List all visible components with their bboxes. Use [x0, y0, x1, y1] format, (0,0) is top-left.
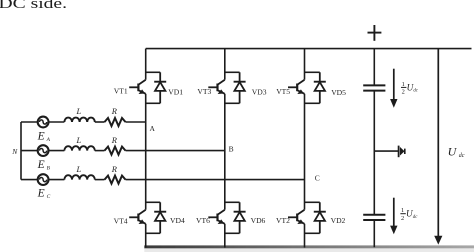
- wire: phase b from N to source: [21, 150, 38, 152]
- svg-text:E: E: [37, 159, 45, 171]
- resistor R phase c: [105, 176, 126, 184]
- wire: leg 3 top (bus to VT5 collector): [304, 49, 306, 80]
- svg-text:VD2: VD2: [331, 216, 346, 225]
- diode VD2: [314, 202, 326, 233]
- wire: VD4 bottom jog: [146, 232, 161, 234]
- svg-text:R: R: [111, 164, 118, 174]
- svg-text:VT2: VT2: [276, 216, 290, 225]
- arrow: half Udc voltage (upper): [390, 69, 397, 108]
- transistor VT2: [288, 210, 305, 224]
- svg-text:U: U: [448, 145, 458, 159]
- wire: phase c from N to source: [21, 179, 38, 181]
- transistor VT5: [288, 80, 305, 94]
- svg-text:1: 1: [401, 207, 404, 214]
- svg-text:dc: dc: [459, 153, 465, 159]
- AC source Ec: [38, 174, 49, 185]
- resistor R phase b: [105, 147, 126, 155]
- wire: VD5 top jog: [305, 71, 320, 73]
- svg-text:E: E: [37, 130, 45, 142]
- transistor VT3: [208, 80, 225, 94]
- svg-text:A: A: [150, 124, 156, 133]
- wire: VD2 bottom jog: [305, 232, 320, 234]
- capacitor C1 (upper): [363, 85, 385, 90]
- wire: leg 2 top (bus to VT3 collector): [224, 49, 226, 80]
- svg-text:R: R: [111, 135, 118, 145]
- svg-text:VT3: VT3: [197, 87, 211, 96]
- capacitor C2 (lower): [363, 215, 385, 220]
- wire: VD2 top jog: [305, 201, 320, 203]
- wire: negative DC bus (cropped, greyed): [144, 245, 474, 248]
- wire: leg 3 bottom: [304, 224, 306, 248]
- transistor VT4: [129, 210, 146, 224]
- svg-text:VD3: VD3: [252, 88, 267, 97]
- svg-text:2: 2: [401, 215, 404, 222]
- svg-text:L: L: [76, 135, 82, 145]
- wire: VD6 top jog: [225, 201, 240, 203]
- diode VD1: [154, 72, 166, 103]
- svg-text:VD5: VD5: [331, 88, 346, 97]
- arrow: Udc output voltage: [434, 49, 442, 245]
- svg-text:C: C: [47, 194, 51, 200]
- label 1/2 Udc: [400, 207, 418, 222]
- wire: source to inductor: [48, 121, 64, 123]
- wire: source to inductor: [48, 179, 64, 181]
- wire: leg 2 middle: [224, 94, 226, 210]
- wire: VD1 top jog: [146, 71, 161, 73]
- wire: neutral vertical: [20, 122, 22, 180]
- svg-text:1: 1: [402, 81, 405, 88]
- transistor VT1: [129, 80, 146, 94]
- wire: VD3 bottom jog: [225, 102, 240, 104]
- plus symbol on DC bus: [368, 25, 382, 41]
- wire: phase a to node A: [126, 121, 146, 123]
- wire: leg 3 middle: [304, 94, 306, 210]
- svg-text:L: L: [76, 106, 82, 116]
- wire: inductor to resistor: [95, 121, 105, 123]
- wire: capacitor midpoint tap: [374, 150, 398, 152]
- inductor L phase a: [64, 118, 94, 122]
- wire: inductor to resistor: [95, 150, 105, 152]
- svg-text:VD6: VD6: [251, 216, 266, 225]
- wire: C2 to negative bus: [373, 220, 375, 247]
- svg-text:VD1: VD1: [168, 88, 183, 97]
- wire: phase c to node C: [126, 179, 305, 181]
- wire: VD3 top jog: [225, 71, 240, 73]
- diode VD4: [154, 202, 166, 233]
- diode VD6: [234, 202, 246, 233]
- wire: bus to capacitor C1: [373, 49, 375, 85]
- inductor L phase c: [64, 175, 94, 179]
- svg-text:VT1: VT1: [114, 87, 128, 96]
- wire: VD5 bottom jog: [305, 102, 320, 104]
- wire: C1 to midpoint to C2: [373, 91, 375, 215]
- ground (midpoint reference): [399, 146, 405, 158]
- wire: source to inductor: [48, 150, 64, 152]
- arrow: half Udc voltage (lower): [390, 198, 397, 235]
- label 1/2 Udc: [401, 81, 419, 96]
- svg-text:B: B: [229, 145, 234, 154]
- wire: positive DC bus: [146, 48, 472, 50]
- svg-text:N: N: [11, 147, 18, 156]
- wire: VD6 bottom jog: [225, 232, 240, 234]
- inductor L phase b: [64, 146, 94, 150]
- wire: leg 1 top (bus to VT1 collector): [145, 49, 147, 80]
- wire: VD1 bottom jog: [146, 102, 161, 104]
- diode VD3: [234, 72, 246, 103]
- svg-text:E: E: [37, 187, 45, 199]
- svg-text:DC side.: DC side.: [0, 0, 67, 12]
- diode VD5: [314, 72, 326, 103]
- wire: leg 1 bottom: [145, 224, 147, 248]
- svg-text:VD4: VD4: [170, 216, 185, 225]
- svg-text:VT5: VT5: [276, 87, 290, 96]
- wire: inductor to resistor: [95, 179, 105, 181]
- svg-text:C: C: [315, 173, 320, 182]
- wire: leg 2 bottom: [224, 224, 226, 248]
- AC source Eb: [38, 145, 49, 156]
- svg-text:VT6: VT6: [196, 216, 210, 225]
- AC source Ea: [38, 117, 49, 128]
- svg-text:2: 2: [402, 89, 405, 96]
- wire: VD4 top jog: [146, 201, 161, 203]
- transistor VT6: [208, 210, 225, 224]
- wire: leg 1 middle: [145, 94, 147, 210]
- wire: phase a from N to source: [21, 121, 38, 123]
- svg-text:L: L: [76, 164, 82, 174]
- svg-text:VT4: VT4: [114, 217, 128, 226]
- wire: phase b to node B: [126, 150, 225, 152]
- svg-text:R: R: [111, 106, 118, 116]
- svg-text:A: A: [46, 137, 51, 143]
- resistor R phase a: [105, 118, 126, 126]
